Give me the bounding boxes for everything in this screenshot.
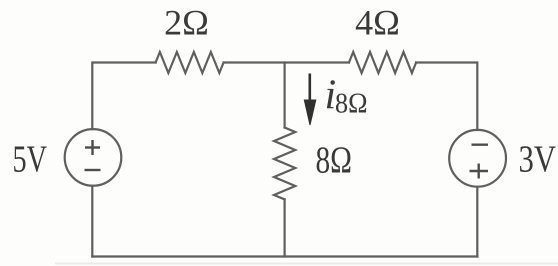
svg-text:8Ω: 8Ω	[335, 88, 368, 120]
svg-text:5V: 5V	[13, 139, 48, 181]
svg-text:2Ω: 2Ω	[164, 3, 209, 43]
V1 plus terminal	[85, 146, 100, 148]
V2 plus terminal	[470, 170, 489, 172]
voltage source V1 circle (5V)	[65, 129, 122, 186]
svg-text:4Ω: 4Ω	[355, 3, 400, 43]
voltage source V2 circle (3V)	[449, 130, 506, 187]
resistor R3 zigzag (8 ohm, vertical)	[274, 128, 295, 200]
wire top-right segment	[416, 63, 477, 131]
svg-text:8Ω: 8Ω	[316, 140, 353, 182]
wire top-middle segment	[224, 61, 349, 63]
V2 minus terminal	[472, 143, 489, 145]
wire middle-bottom segment	[284, 199, 286, 256]
wire bottom rail	[92, 255, 477, 257]
node A (top of middle branch)	[284, 63, 286, 128]
svg-text:3V: 3V	[519, 139, 557, 181]
V1 minus terminal	[85, 169, 101, 171]
current arrow i8 (direction annotation)	[304, 74, 316, 126]
wire right-bottom segment	[476, 187, 478, 257]
wire left-bottom segment	[91, 186, 93, 257]
wire top-left segment	[92, 63, 155, 130]
resistor R1 zigzag (2 ohm)	[156, 52, 224, 73]
scan shadow bottom edge	[55, 263, 558, 265]
resistor R2 zigzag (4 ohm)	[349, 52, 416, 73]
